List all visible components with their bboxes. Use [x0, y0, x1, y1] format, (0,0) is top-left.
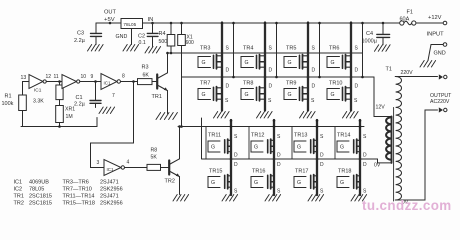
wire secondary top lead: [395, 76, 437, 78]
capacitor C1 2.2u: [95, 82, 97, 100]
fuse F1 60A: [400, 21, 404, 25]
inverter IC1b: [62, 75, 77, 89]
ground for GND terminal: [420, 61, 436, 68]
wire TR9 source to ground: [307, 77, 309, 111]
svg-text:1M: 1M: [66, 114, 73, 120]
resistor R2 3.3K: [59, 82, 61, 86]
svg-text:G: G: [211, 145, 215, 151]
svg-text:+12V: +12V: [428, 15, 442, 21]
svg-text:tu.cndzz.com: tu.cndzz.com: [362, 198, 452, 213]
svg-text:TR6: TR6: [329, 46, 339, 52]
terminal +12V: [443, 21, 447, 25]
svg-text:D: D: [234, 162, 238, 168]
node C1 tap: [94, 80, 97, 83]
svg-text:G: G: [340, 180, 344, 186]
svg-text:INPUT: INPUT: [427, 32, 445, 38]
svg-text:G: G: [245, 92, 249, 98]
svg-text:G: G: [297, 180, 301, 186]
svg-text:60A: 60A: [400, 17, 410, 23]
svg-text:R3: R3: [142, 65, 149, 71]
regulator IC2 78L05: [121, 19, 143, 29]
svg-text:12V: 12V: [376, 105, 386, 111]
svg-text:2SC1815: 2SC1815: [29, 194, 52, 200]
wire column 4 lower cell border: [334, 127, 336, 160]
svg-text:G: G: [202, 92, 206, 98]
transistor TR2 2SC1815: [168, 161, 170, 175]
wire output A to primary top: [374, 77, 392, 117]
svg-text:C4: C4: [366, 31, 373, 37]
svg-text:R1: R1: [5, 94, 12, 100]
ground for TR1: [156, 113, 177, 120]
svg-text:TR13: TR13: [294, 133, 307, 139]
resistor R3 6K: [138, 79, 153, 85]
svg-text:TR8: TR8: [243, 80, 253, 86]
wire oscillator common rail: [21, 126, 97, 128]
svg-text:100k: 100k: [2, 101, 14, 107]
wire TR4 source bus: [264, 23, 266, 78]
ground for C3: [88, 45, 104, 52]
wire column 1 lower cell border: [205, 127, 207, 160]
svg-text:G: G: [331, 60, 335, 66]
ground for TR8: [257, 112, 273, 119]
svg-text:D: D: [226, 68, 230, 74]
svg-text:TR15: TR15: [209, 169, 222, 175]
wire TR15 source to ground: [230, 159, 232, 195]
svg-text:2SJ471: 2SJ471: [100, 194, 119, 200]
capacitor C2 0.1u: [152, 23, 154, 33]
svg-text:220V: 220V: [401, 70, 414, 76]
wire column 4 auxiliary drop: [362, 23, 364, 77]
wire column 3 lower cell border: [291, 127, 293, 160]
svg-text:G: G: [288, 92, 292, 98]
wire output node B rail: [202, 158, 378, 160]
terminal output upper: [439, 74, 443, 79]
svg-text:TR7: TR7: [200, 80, 210, 86]
svg-text:D: D: [320, 153, 324, 159]
svg-text:TR3: TR3: [200, 46, 210, 52]
svg-text:IC1: IC1: [104, 81, 112, 86]
ground for C2: [145, 47, 161, 54]
ground for C1: [99, 107, 115, 114]
terminal GND: [443, 43, 447, 47]
ground for TR2: [173, 195, 189, 202]
svg-text:TR15—TR18: TR15—TR18: [63, 201, 95, 207]
svg-text:2SK2956: 2SK2956: [100, 201, 123, 207]
wire TR13 source bus: [316, 120, 318, 159]
svg-text:GND: GND: [116, 34, 128, 40]
wire TR1 emitter: [167, 91, 169, 114]
capacitor C4 1000u: [382, 23, 384, 34]
svg-text:8: 8: [122, 74, 125, 80]
node C2 top: [151, 22, 154, 25]
wire fuse to +12V terminal: [416, 22, 443, 24]
wire inverter4 output: [125, 167, 147, 169]
wire TR1 collector: [167, 53, 169, 73]
svg-text:78L05: 78L05: [29, 187, 44, 193]
node XR1 tap: [58, 80, 61, 83]
wire inverter1 to inverter2: [46, 81, 62, 83]
wire column 1 auxiliary drop: [233, 23, 235, 77]
wire R3 to TR1 base: [152, 81, 156, 83]
svg-text:TR10: TR10: [329, 80, 342, 86]
wire column 2 lower cell border: [248, 127, 250, 160]
inverter IC1a: [29, 75, 43, 89]
ground for TR16: [265, 195, 281, 202]
ground for TR9: [300, 112, 316, 119]
svg-text:D: D: [277, 153, 281, 159]
svg-text:G: G: [331, 92, 335, 98]
svg-text:D: D: [355, 68, 359, 74]
svg-text:R4: R4: [159, 31, 166, 37]
node C4 top: [382, 22, 385, 25]
svg-text:G: G: [254, 180, 258, 186]
svg-text:T1: T1: [386, 67, 392, 73]
resonator XR1 1M: [59, 100, 61, 106]
wire source rail row3: [178, 126, 364, 128]
terminal output lower: [439, 107, 443, 112]
svg-text:2SJ471: 2SJ471: [100, 180, 119, 186]
ground for regulator: [123, 45, 139, 52]
wire TR2 collector: [179, 127, 181, 159]
ground for TR7: [214, 112, 230, 119]
svg-text:D: D: [269, 84, 273, 90]
ground for C4: [375, 45, 391, 52]
svg-text:C1: C1: [76, 95, 83, 101]
wire +12V top rail left part: [143, 22, 400, 24]
wire inverter2 to inverter3: [80, 81, 101, 83]
wire column 2 auxiliary drop: [276, 23, 278, 77]
svg-text:TR18: TR18: [338, 169, 351, 175]
wire TR2 emitter: [179, 177, 181, 195]
wire +5V rail to regulator: [96, 22, 121, 24]
svg-text:2SC1815: 2SC1815: [29, 201, 52, 207]
wire feedback to inverter4: [133, 82, 135, 144]
svg-text:7: 7: [112, 93, 115, 99]
svg-text:10: 10: [81, 74, 87, 80]
svg-text:13: 13: [21, 75, 27, 81]
svg-text:1000µ: 1000µ: [362, 39, 378, 45]
svg-text:TR9: TR9: [286, 80, 296, 86]
svg-text:TR1: TR1: [14, 194, 24, 200]
svg-text:TR1: TR1: [152, 94, 162, 100]
wire regulator ground lead: [131, 29, 133, 45]
svg-text:TR2: TR2: [14, 201, 24, 207]
svg-text:G: G: [211, 180, 215, 186]
svg-text:TR16: TR16: [252, 169, 265, 175]
wire TR12 source bus: [273, 120, 275, 159]
svg-text:D: D: [226, 84, 230, 90]
inverter IC1d: [104, 160, 121, 176]
transformer secondary winding: [396, 77, 402, 201]
svg-text:GND: GND: [434, 51, 446, 57]
svg-text:C2: C2: [138, 34, 145, 40]
svg-text:D: D: [355, 84, 359, 90]
wire TR16 source to ground: [273, 159, 275, 195]
svg-text:3: 3: [97, 160, 100, 166]
svg-text:D: D: [363, 162, 367, 168]
wire TR3 source bus: [221, 23, 223, 78]
svg-text:500: 500: [159, 39, 168, 45]
svg-text:78L05: 78L05: [123, 22, 136, 27]
svg-text:4: 4: [127, 160, 130, 166]
wire TR11 source bus: [230, 120, 232, 159]
wire gate rail row1: [168, 52, 363, 54]
wire inverter3 output: [121, 81, 138, 83]
svg-text:5K: 5K: [151, 155, 158, 161]
svg-text:2.2µ: 2.2µ: [74, 38, 86, 44]
svg-text:600: 600: [186, 40, 195, 46]
svg-text:TR14: TR14: [337, 133, 350, 139]
capacitor C3 2.2u: [95, 23, 97, 33]
wire TR17 source to ground: [316, 159, 318, 195]
svg-text:TR11—TR14: TR11—TR14: [63, 194, 95, 200]
svg-text:0V: 0V: [374, 163, 381, 169]
svg-text:4069UB: 4069UB: [29, 180, 49, 186]
wire inverter1 input: [23, 81, 30, 83]
wire drive drop to output B rail: [201, 118, 203, 159]
svg-text:G: G: [288, 60, 292, 66]
svg-text:IC2: IC2: [14, 187, 23, 193]
svg-text:D: D: [277, 162, 281, 168]
wire TR10 source to ground: [350, 77, 352, 111]
svg-text:D: D: [234, 153, 238, 159]
svg-text:AC220V: AC220V: [430, 99, 450, 105]
wire TR5 source bus: [307, 23, 309, 78]
resistor R4 500: [170, 22, 173, 25]
svg-text:2SK2956: 2SK2956: [100, 187, 123, 193]
svg-text:D: D: [320, 162, 324, 168]
svg-text:6K: 6K: [143, 73, 150, 79]
svg-text:TR11: TR11: [208, 133, 221, 139]
svg-text:D: D: [312, 84, 316, 90]
svg-text:11: 11: [54, 74, 59, 80]
svg-text:D: D: [363, 153, 367, 159]
svg-text:TR3—TR6: TR3—TR6: [63, 180, 89, 186]
wire TR14 source bus: [359, 120, 361, 159]
wire output node A rail: [182, 76, 374, 78]
svg-text:2.2µ: 2.2µ: [74, 102, 86, 108]
wire GND terminal lead: [428, 45, 443, 61]
svg-text:G: G: [254, 145, 258, 151]
svg-text:TR7—TR10: TR7—TR10: [63, 187, 92, 193]
node +5V: [109, 22, 112, 25]
transformer core: [393, 108, 395, 202]
svg-text:9: 9: [91, 74, 94, 80]
svg-text:TR4: TR4: [243, 46, 253, 52]
wire column 3 auxiliary drop: [319, 23, 321, 77]
svg-text:G: G: [340, 145, 344, 151]
resonator X1 600: [180, 22, 183, 25]
wire TR18 source to ground: [359, 159, 361, 195]
wire TR6 source bus: [350, 23, 352, 78]
wire TR8 source to ground: [264, 77, 266, 111]
resistor R1 100k: [22, 82, 24, 96]
ground for TR10: [343, 112, 359, 119]
ground for TR17: [308, 195, 324, 202]
svg-text:G: G: [202, 60, 206, 66]
svg-text:TR2: TR2: [165, 179, 175, 185]
ground for TR15: [222, 195, 238, 202]
resistor R8 5K: [147, 164, 161, 170]
svg-text:TR17: TR17: [295, 169, 308, 175]
svg-text:12: 12: [46, 74, 52, 80]
svg-text:G: G: [297, 145, 301, 151]
svg-text:C3: C3: [77, 31, 84, 37]
svg-text:F1: F1: [407, 10, 413, 16]
transformer primary winding: [391, 117, 393, 163]
inverter IC1c: [101, 74, 117, 90]
svg-text:OUT: OUT: [104, 10, 117, 16]
svg-text:G: G: [245, 60, 249, 66]
transistor TR1 2SC1815: [156, 75, 158, 89]
svg-text:0.1: 0.1: [139, 40, 146, 46]
svg-text:R8: R8: [151, 148, 158, 154]
svg-text:D: D: [312, 68, 316, 74]
svg-text:3.3K: 3.3K: [33, 99, 44, 105]
svg-text:D: D: [269, 68, 273, 74]
svg-text:IC1: IC1: [14, 180, 23, 186]
wire output B to primary bottom: [378, 159, 392, 163]
wire secondary bottom lead: [395, 110, 437, 200]
svg-text:TR12: TR12: [251, 133, 264, 139]
wire TR7 source to ground: [221, 77, 223, 111]
ground for TR18: [351, 195, 367, 202]
svg-text:IC1: IC1: [107, 167, 115, 172]
svg-text:TR5: TR5: [286, 46, 296, 52]
svg-text:IC1: IC1: [34, 88, 42, 93]
wire R8 to TR2 base: [161, 167, 169, 169]
